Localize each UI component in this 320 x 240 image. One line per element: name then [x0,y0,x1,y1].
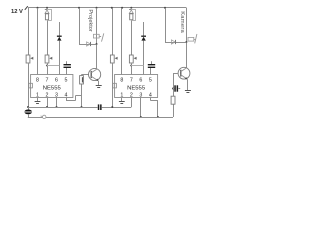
svg-text:5: 5 [65,77,68,83]
capacitor C1 top lead [66,61,68,64]
resistor R6 on Q2 base line [171,96,175,104]
wire node to diode D2 [59,22,61,36]
svg-text:4: 4 [65,92,68,98]
svg-text:12 V: 12 V [11,9,23,15]
capacitor C5 at Q2 base [173,88,174,90]
wire trimmer P3 to trigger line [112,63,114,107]
node U1 pin2 junction [46,106,48,108]
wire Kamera line / Q2 collector [186,8,188,68]
transistor Q1 body [89,68,101,80]
wire R1 to trimmer P2 [47,21,49,56]
capacitor C3 electrolytic (dark) [28,107,30,110]
op-amp U1 NE555 timer IC body [31,75,73,98]
wire Q1 emitter to ground [98,81,100,85]
wire +12V top rail [28,7,187,9]
node +12V rail junction [96,7,98,9]
wire pin7 to pin6 link [130,65,132,67]
wire U1 pin 2 to trigger line [47,98,49,108]
wire U1 pin 3 to trigger line [56,98,58,108]
resistor R2 (base of Q1) [80,76,84,84]
ground at Q2 emitter [185,90,191,92]
node +12V rail junction [164,7,166,9]
node Kamera diode junction [185,41,187,43]
supply input terminal tick [25,6,28,10]
capacitor C4 coupling (series, dark) [98,104,100,110]
Q1 emitter stroke with arrow [91,76,98,80]
svg-text:Projektor: Projektor [87,9,93,32]
svg-text:5: 5 [149,77,152,83]
svg-text:NE555: NE555 [43,86,62,92]
wire R3 to trimmer P4 [131,21,133,56]
wire bottom line [28,117,173,119]
svg-text:8: 8 [120,77,123,83]
wire trimmer to U1 pin 7 [47,63,49,75]
wire Q2 base lead [173,74,175,117]
resistor R3 [130,14,133,20]
wire trigger line left [28,107,98,109]
wire trimmer to U2 pin 7 [131,63,133,75]
wire capacitor to U2 pin 5 [150,68,152,75]
svg-text:7: 7 [130,77,133,83]
trimmer potentiometer P4 [129,55,133,63]
wire Q2 emitter to ground [187,79,189,90]
svg-text:4: 4 [149,92,152,98]
node trimmer P3 junction [111,106,113,108]
switch S1 terminal [41,115,43,118]
wire Q1 collector / Projektor line [96,8,98,69]
svg-text:1: 1 [36,92,39,98]
svg-text:2: 2 [46,92,49,98]
wire trigger line right [102,107,132,109]
wire diode D2 to U1 pin 6 [59,41,61,75]
capacitor C1 [64,64,71,65]
U2 pin-1 notch [113,83,117,88]
flyback diode D6 [165,42,186,44]
node +12V rail junction [130,7,132,9]
svg-text:7: 7 [46,77,49,83]
node +12V rail junction [121,7,123,9]
diode D1 (across R, anode up) [47,8,49,10]
diode D3 (across R, anode up) [131,8,133,10]
node trigger left junction [27,106,29,108]
wire pin7 to pin6 link [46,65,48,67]
diode D4 (dark) [141,35,146,37]
wire R2 to Q1 base [81,75,83,76]
node base line junction [81,106,83,108]
wire rail to U1 pin 8 [37,8,39,75]
svg-text:2: 2 [130,92,133,98]
svg-text:6: 6 [55,77,58,83]
svg-text:6: 6 [139,77,142,83]
flyback diode D5 [79,44,97,46]
capacitor C2 top lead [151,61,153,64]
transistor Q2 body [178,67,190,79]
wire U2 pin 2 to trigger line [131,98,133,108]
diode D2 (dark) [57,35,62,37]
svg-text:8: 8 [36,77,39,83]
Q1 collector stroke [91,69,97,73]
wire rail drop to flyback diode D6 [165,8,167,42]
wire bypass around R1 [47,9,52,11]
node +12V rail junction [111,7,113,9]
node U2 pin3 junction [140,116,142,118]
Q2 emitter stroke with arrow [181,75,187,79]
wire U2 pin 4 to bottom line [150,98,152,101]
node +12V rail junction [78,7,80,9]
svg-text:3: 3 [55,92,58,98]
Q2 collector stroke [181,68,186,71]
ground at U1 pin 1 [37,98,39,101]
wire rail drop to flyback diode D5 [79,8,81,44]
wire bypass around R3 [131,9,136,11]
connector J2 Kamera plug [188,37,194,41]
op-amp U2 NE555 timer IC body [115,75,158,98]
svg-text:NE555: NE555 [127,86,146,92]
node flyback junction [96,43,98,45]
wire rail to trimmer P3 [112,8,114,55]
node +12V rail junction [37,7,39,9]
node +12V rail junction [46,7,48,9]
node Q2 base junction [172,88,174,90]
wire capacitor to U1 pin 5 [66,68,68,75]
svg-text:1: 1 [120,92,123,98]
svg-text:Kamera: Kamera [179,11,185,33]
node U1 pin3 junction [56,106,58,108]
wire U1 pin 4 dogleg to base resistor R2 [66,98,68,101]
wire node to diode D4 [143,22,145,36]
U1 pin-1 notch [29,83,33,88]
node pin4 drop junction [157,116,159,118]
wire U2 pin 3 to bottom line [140,98,142,118]
svg-text:3: 3 [139,92,142,98]
wire diode D4 to U2 pin 6 [143,41,145,75]
wire base resistor R2 lower lead [81,84,83,107]
connector J1 Projektor plug [93,34,99,38]
resistor R1 [45,14,48,20]
trimmer potentiometer P1 [26,55,30,63]
ground at Q1 emitter [96,85,102,87]
ground at U2 pin 1 [121,98,123,101]
wire rail to trimmer P1 [28,8,30,55]
wire rail to U2 pin 8 [121,8,123,75]
wire trimmer P1 to trigger line [28,63,30,107]
capacitor C2 [148,64,155,65]
trimmer potentiometer P3 [110,55,114,63]
trimmer potentiometer P2 [45,55,49,63]
